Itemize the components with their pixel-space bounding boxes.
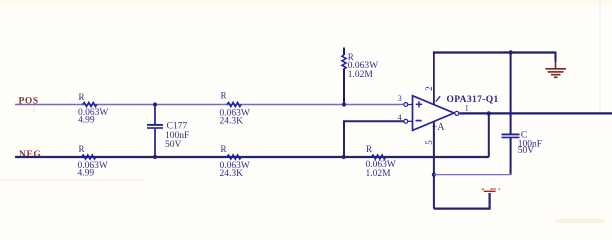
svg-text:50V: 50V [165, 140, 182, 150]
resistor R 0.063W 4.99 (POS) [78, 92, 108, 125]
wire feedback riser [488, 113, 490, 157]
wire NEG net / feedback run [15, 156, 489, 158]
resistor R 0.063W 24.3K (POS) [220, 91, 250, 127]
svg-text:R: R [221, 144, 227, 154]
wire POS net [15, 104, 404, 106]
plus marker [416, 103, 422, 105]
svg-text:R: R [366, 144, 372, 154]
wire pin 5 down [433, 121, 435, 208]
wire output net [459, 112, 612, 114]
pin 4 connector circle [404, 119, 408, 123]
minus marker [416, 120, 422, 122]
ground [546, 52, 567, 78]
node: output / feedback junction [487, 111, 491, 115]
pin 3 connector circle [404, 103, 408, 107]
resistor R 0.063W 1.02M (vertical, from POS node up) [342, 48, 378, 105]
capacitor C 100nF 50V (supply decoupling) [502, 53, 543, 175]
node A junction on NEG [342, 155, 346, 159]
svg-text:R: R [79, 144, 85, 154]
slash mark at power pin [436, 96, 440, 101]
svg-text:3: 3 [398, 94, 402, 103]
svg-text:2: 2 [424, 86, 434, 91]
svg-text:4.99: 4.99 [78, 115, 95, 125]
svg-text:5: 5 [424, 140, 434, 145]
wire inverting input (node A up to pin 4) [344, 121, 404, 157]
wire bottom loop [434, 193, 490, 209]
wire pin 2 to V+ rail [433, 53, 435, 105]
svg-text:OPA317-Q1: OPA317-Q1 [447, 95, 499, 105]
output connector circle [455, 111, 459, 115]
triangle body [413, 96, 455, 131]
svg-text:4.99: 4.99 [78, 168, 95, 178]
wire V+ rail [433, 51, 556, 53]
svg-text:1.02M: 1.02M [348, 70, 374, 80]
wire V- thin run to cap [434, 174, 511, 176]
svg-text:1: 1 [465, 104, 469, 113]
svg-text:R: R [221, 91, 227, 101]
capacitor C177 100nF 50V [147, 103, 189, 160]
svg-text:24.3K: 24.3K [220, 117, 244, 127]
node: POS / R1.02M junction [342, 102, 346, 106]
svg-text:4: 4 [398, 113, 402, 122]
svg-text:50V: 50V [518, 146, 535, 156]
node: V- junction [432, 173, 436, 177]
net label (red power symbol) [482, 189, 501, 191]
op-amp U1 OPA317-Q1 [398, 86, 499, 145]
resistor R 0.063W 1.02M (feedback, on NEG run) [366, 144, 396, 179]
svg-text:1.02M: 1.02M [366, 169, 392, 179]
resistor R 0.063W 24.3K (NEG) [220, 144, 250, 179]
node: rail / cap branch junction [508, 50, 512, 54]
svg-text:NEG: NEG [19, 150, 41, 160]
svg-text:R: R [79, 92, 85, 102]
resistor R 0.063W 4.99 (NEG) [78, 144, 108, 179]
svg-text:24.3K: 24.3K [220, 169, 244, 179]
